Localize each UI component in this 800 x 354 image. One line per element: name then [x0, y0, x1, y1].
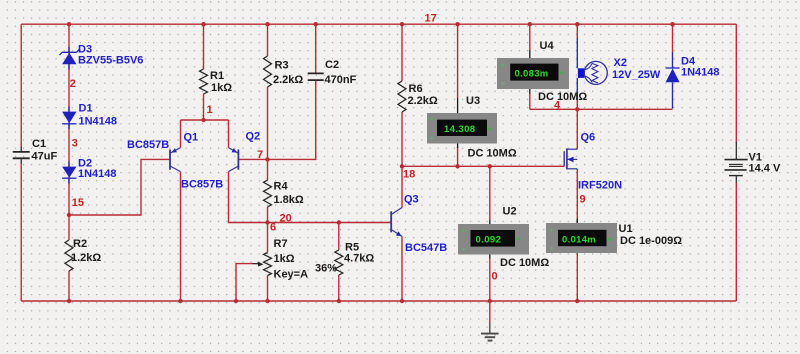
battery V1 leads [735, 142, 737, 159]
wire R1 top lead [203, 24, 205, 69]
svg-text:+: + [462, 245, 467, 254]
ground symbol [481, 322, 499, 341]
multimeter U1 [546, 219, 617, 254]
svg-text:2.2kΩ: 2.2kΩ [408, 95, 438, 107]
svg-text:R2: R2 [73, 238, 87, 250]
svg-text:6: 6 [270, 222, 276, 234]
wire left rail upper (to C1) [20, 24, 22, 146]
resistor R3 2.2kOhm body [264, 56, 272, 87]
svg-text:BC857B: BC857B [181, 179, 223, 191]
wire R6 bottom lead to node 18 [401, 112, 403, 166]
wire left rail lower (C1 to bottom) [20, 164, 22, 301]
wire diode column lower (below R2) [68, 271, 70, 301]
transistor Q2 BC857B (PNP, mirrored) [229, 148, 239, 172]
svg-text:DC 10MΩ: DC 10MΩ [538, 91, 587, 103]
multimeter U2 [458, 220, 529, 259]
lamp X2 12V_25W [577, 38, 607, 100]
potentiometer R7 1kOhm body [264, 253, 272, 276]
wire Q1 base path to node 15 [69, 159, 170, 215]
svg-text:1N4148: 1N4148 [78, 168, 117, 180]
wire R4 bottom lead to node 20 [267, 207, 269, 223]
svg-text:DC 10MΩ: DC 10MΩ [500, 257, 549, 269]
svg-text:+: + [501, 61, 506, 70]
svg-text:14.308: 14.308 [444, 124, 475, 135]
multimeter U3 [427, 98, 497, 148]
wire right rail upper (to V1) [735, 24, 737, 143]
resistor R2 1.2kOhm body [65, 240, 73, 271]
wire emitter rail Q1-Q2 [181, 119, 229, 121]
svg-text:R7: R7 [274, 238, 288, 250]
node 18 junction at U2 [488, 164, 492, 168]
svg-text:4: 4 [554, 100, 561, 112]
svg-text:1.8kΩ: 1.8kΩ [274, 194, 304, 206]
node 18 junction at U3 [455, 164, 459, 168]
node 20 junction at R5 [337, 220, 341, 224]
node top: U3 junction [455, 22, 459, 26]
svg-text:BC857B: BC857B [127, 139, 169, 151]
svg-text:+: + [430, 134, 435, 143]
svg-text:15: 15 [72, 197, 84, 209]
wire Q2 emitter vertical [228, 120, 230, 148]
battery V1 plates [725, 159, 748, 161]
svg-text:Q3: Q3 [404, 194, 419, 206]
wire C2 top lead [315, 24, 317, 73]
svg-text:R1: R1 [210, 70, 224, 82]
wire Q3 emitter to bottom bus [401, 236, 403, 301]
wire Q3 collector to node 18 [401, 166, 403, 207]
wire node 4 line U4 to D4 [530, 108, 673, 110]
wire lamp/drain column upper [576, 24, 578, 38]
svg-text:Q2: Q2 [246, 131, 261, 143]
resistor R4 1.8kOhm body [264, 180, 272, 207]
wire R7 bottom lead [267, 276, 269, 302]
transistor Q1 BC857B (PNP) [170, 148, 181, 172]
wire R5 bottom lead [338, 275, 340, 301]
wire Q2 base to node 7 [238, 158, 267, 160]
node top: C2 junction [314, 22, 318, 26]
bottom bus junction Q1 collector [178, 299, 182, 303]
wire U4 top lead red [529, 24, 531, 50]
svg-text:0.092: 0.092 [476, 235, 502, 246]
wire top bus node 17 [21, 23, 736, 25]
wire U3 top lead red [457, 24, 459, 98]
svg-text:+: + [430, 115, 435, 124]
svg-text:BC547B: BC547B [405, 242, 447, 254]
node top: R1 junction [201, 22, 205, 26]
svg-text:470nF: 470nF [325, 74, 357, 86]
bottom bus junction ground/U2 [488, 299, 492, 303]
svg-text:1.2kΩ: 1.2kΩ [71, 252, 101, 264]
svg-text:+: + [501, 79, 506, 88]
resistor R1 1kOhm body [200, 69, 208, 94]
wire right rail lower (V1 to bottom) [735, 182, 737, 301]
wire R1 bottom lead to node 1 rail [203, 94, 205, 120]
node 18 junction at Q3/R6 [400, 164, 404, 168]
svg-text:BZV55-B5V6: BZV55-B5V6 [78, 55, 143, 67]
diode D2 1N4148 [62, 162, 76, 184]
svg-text:0.083m: 0.083m [515, 68, 549, 79]
svg-text:Key=A: Key=A [274, 269, 309, 281]
svg-text:1kΩ: 1kΩ [211, 82, 232, 94]
svg-text:4.7kΩ: 4.7kΩ [344, 253, 374, 265]
wire diode column upper (D3,D1,D2 chain) [68, 24, 70, 240]
wire R4 top lead from node 7 [267, 159, 269, 180]
transistor Q6 IRF520N (NMOS) [564, 148, 577, 169]
svg-text:U4: U4 [540, 40, 555, 52]
diode D4 1N4148 [666, 52, 680, 109]
wire R7 wiper to bottom bus [236, 264, 253, 301]
wire node 18 line to Q6 gate [402, 165, 564, 167]
svg-text:R6: R6 [409, 83, 423, 95]
svg-text:1N4148: 1N4148 [79, 116, 118, 128]
svg-text:7: 7 [257, 149, 263, 161]
resistor R5 4.7kOhm body [335, 250, 343, 275]
svg-text:12V_25W: 12V_25W [612, 69, 661, 81]
node top: R6 junction [400, 22, 404, 26]
wire U2 top lead red [489, 166, 491, 220]
node top: diode column junction [67, 22, 71, 26]
svg-text:U1: U1 [619, 223, 633, 235]
resistor R6 2.2kOhm body [398, 81, 406, 112]
diode D3 BZV55-B5V6 zener [60, 47, 80, 70]
svg-text:0: 0 [492, 271, 498, 283]
diode D1 1N4148 [62, 107, 76, 130]
bottom bus junction R2 [67, 299, 71, 303]
wire Q1 collector to bottom bus [180, 172, 182, 301]
wire ground stem red [489, 301, 491, 322]
transistor Q3 BC547B (NPN) [391, 208, 402, 237]
bottom bus junction R7 [265, 299, 269, 303]
wire R3 top lead [267, 24, 269, 56]
wire node 7 to C2 bottom [268, 81, 316, 160]
wire D4 column [672, 24, 674, 52]
svg-text:C1: C1 [32, 138, 46, 150]
wire R3 bottom lead to node 7 [267, 87, 269, 159]
svg-text:X2: X2 [614, 57, 627, 69]
wire U4 bottom lead red [529, 93, 531, 109]
svg-text:18: 18 [403, 169, 415, 181]
svg-text:47uF: 47uF [32, 151, 58, 163]
wire Q6 source to U1 [576, 169, 578, 223]
node top: R3 junction [265, 22, 269, 26]
svg-text:+: + [550, 244, 555, 253]
node 7 junction [265, 157, 269, 161]
wire R5 top lead from node 20 [338, 223, 340, 251]
svg-text:Q1: Q1 [184, 132, 199, 144]
wire Q2 collector and node 20 line to Q3 base [229, 172, 392, 223]
node 1 junction [201, 118, 205, 122]
svg-text:+: + [550, 226, 555, 235]
svg-text:DC 1e-009Ω: DC 1e-009Ω [620, 235, 682, 247]
svg-text:R4: R4 [274, 181, 289, 193]
multimeter U4 [497, 50, 569, 94]
bottom bus junction R5 [337, 299, 341, 303]
svg-text:1kΩ: 1kΩ [274, 253, 295, 265]
svg-text:36%: 36% [315, 263, 337, 275]
wire U3 bottom lead red [457, 147, 459, 166]
node top: D4 junction [670, 22, 674, 26]
capacitor C2 470nF plates [308, 72, 324, 74]
wire bottom bus node 0 [21, 300, 736, 302]
wire U2 bottom lead red [489, 258, 491, 301]
bottom bus junction R7 wiper [234, 299, 238, 303]
svg-text:U3: U3 [466, 95, 480, 107]
wire U1 bottom lead to bottom bus [576, 253, 578, 301]
node 15 junction [67, 213, 71, 217]
svg-text:Q6: Q6 [581, 131, 596, 143]
svg-text:1: 1 [207, 104, 213, 116]
capacitor C1 47uF plates [20, 147, 22, 152]
svg-text:D1: D1 [79, 103, 93, 115]
svg-text:IRF520N: IRF520N [578, 180, 622, 192]
wire R6 top lead [401, 24, 403, 81]
node top: lamp column junction [575, 22, 579, 26]
svg-text:0.014m: 0.014m [562, 234, 596, 245]
svg-text:9: 9 [580, 194, 586, 206]
bottom bus junction U1 [575, 299, 579, 303]
wire node 4 to Q6 drain [576, 100, 578, 149]
svg-text:14.4 V: 14.4 V [749, 163, 781, 175]
wire Q1 emitter vertical [180, 120, 182, 148]
svg-text:1N4148: 1N4148 [681, 67, 720, 79]
svg-text:3: 3 [72, 138, 78, 150]
svg-text:20: 20 [280, 213, 292, 225]
potentiometer R7 wiper arrow [253, 263, 260, 265]
node 20 junction at R4/R7 [265, 220, 269, 224]
svg-text:R3: R3 [275, 60, 289, 72]
svg-text:C2: C2 [325, 59, 339, 71]
svg-text:DC 10MΩ: DC 10MΩ [468, 148, 517, 160]
wire R7 top lead [267, 223, 269, 253]
svg-text:2.2kΩ: 2.2kΩ [273, 74, 303, 86]
svg-text:2: 2 [70, 78, 76, 90]
bottom bus junction Q3 emitter [400, 299, 404, 303]
svg-text:+: + [462, 226, 467, 235]
svg-text:17: 17 [425, 13, 437, 25]
node top: U4 junction [528, 22, 532, 26]
node 4 junction [575, 107, 579, 111]
svg-text:U2: U2 [503, 206, 517, 218]
